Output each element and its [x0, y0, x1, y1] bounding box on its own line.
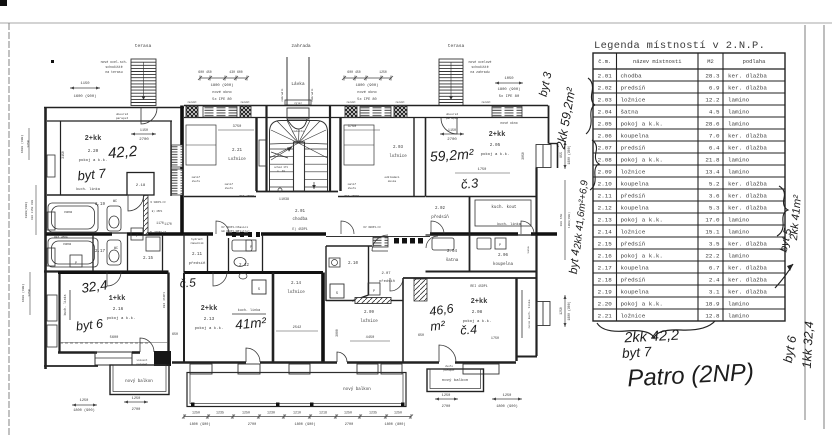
svg-text:2700: 2700 — [132, 408, 141, 412]
bath band south wall west — [44, 270, 169, 272]
svg-text:schod 171: schod 171 — [274, 165, 288, 169]
svg-text:předsíň: předsíň — [621, 240, 646, 247]
svg-text:lamino: lamino — [728, 228, 750, 235]
svg-text:koupelna: koupelna — [621, 204, 650, 211]
svg-text:předsíň: předsíň — [621, 276, 646, 283]
wall 2.03 east — [413, 118, 415, 197]
brace left of table upper — [586, 78, 595, 134]
svg-text:2.11: 2.11 — [192, 253, 203, 257]
stairwell east wall — [329, 106, 331, 193]
dim chain top mid-east — [342, 76, 393, 81]
north wall window xhatch 2a — [345, 106, 357, 118]
svg-text:1230: 1230 — [267, 411, 275, 415]
svg-text:byt 7: byt 7 — [77, 166, 107, 184]
svg-text:3.1: 3.1 — [709, 288, 720, 295]
stair to terrace west — [131, 59, 156, 106]
svg-text:22.2: 22.2 — [705, 252, 720, 259]
svg-text:2.12: 2.12 — [239, 264, 250, 268]
svg-text:malíř: malíř — [192, 175, 201, 179]
svg-text:2+kk: 2+kk — [201, 305, 218, 313]
svg-text:1250: 1250 — [132, 397, 141, 401]
dim east margin lower — [564, 295, 566, 327]
wall west apartment east thick — [180, 106, 184, 235]
svg-text:2700: 2700 — [139, 138, 149, 142]
svg-text:12.2: 12.2 — [705, 96, 720, 103]
svg-text:ker. dlažba: ker. dlažba — [728, 204, 767, 211]
svg-text:předsíň: předsíň — [379, 279, 395, 284]
svg-text:2.13: 2.13 — [204, 317, 215, 322]
dim chain big balcony — [182, 414, 413, 419]
stairwell entry vestibule — [287, 108, 309, 129]
dim west terrace stair — [70, 87, 100, 90]
svg-text:koupelna: koupelna — [493, 262, 514, 267]
svg-text:3750: 3750 — [233, 125, 242, 129]
svg-text:2.01: 2.01 — [598, 72, 613, 79]
svg-text:1800 (800): 1800 (800) — [384, 422, 405, 427]
svg-text:ubourat: ubourat — [116, 112, 129, 116]
svg-text:2700: 2700 — [248, 423, 256, 427]
svg-text:malíř: malíř — [225, 182, 234, 186]
svg-text:nové ocel.sch.: nové ocel.sch. — [101, 60, 128, 64]
svg-text:2.16: 2.16 — [598, 252, 613, 259]
svg-text:nový balkon: nový balkon — [125, 379, 153, 384]
svg-text:21.8: 21.8 — [705, 156, 720, 163]
dim west margin upper — [28, 128, 30, 160]
svg-text:2.18: 2.18 — [136, 184, 146, 188]
south wall room 2.16 — [58, 351, 97, 354]
svg-text:lamino: lamino — [728, 252, 750, 259]
svg-text:1250: 1250 — [80, 399, 89, 403]
svg-text:3050: 3050 — [521, 152, 525, 160]
svg-text:1800(900): 1800(900) — [24, 202, 28, 219]
svg-text:lamino: lamino — [728, 312, 750, 319]
stairwell spine wall — [294, 142, 305, 191]
svg-text:ker. dlažba: ker. dlažba — [728, 264, 767, 271]
upper bath row walls — [46, 232, 127, 234]
svg-text:ložnice: ložnice — [360, 319, 378, 324]
wall satna koupelna north — [426, 234, 538, 236]
svg-text:pokoj a k.k.: pokoj a k.k. — [621, 300, 663, 307]
svg-text:1250: 1250 — [26, 140, 30, 148]
svg-text:E) 45DP1: E) 45DP1 — [292, 227, 307, 231]
south sill boxes mid — [190, 364, 499, 374]
corridor door arcs — [216, 221, 534, 234]
svg-text:1250: 1250 — [379, 70, 387, 74]
svg-text:1250: 1250 — [242, 411, 250, 415]
fixtures 2.10 sink — [329, 258, 340, 267]
svg-text:5x IPE 80: 5x IPE 80 — [357, 98, 376, 102]
shower 2.14 — [252, 280, 266, 294]
svg-text:zazdít: zazdít — [187, 100, 197, 104]
svg-text:2.13: 2.13 — [598, 216, 613, 223]
svg-text:1250: 1250 — [503, 394, 512, 398]
svg-text:2.02: 2.02 — [598, 84, 613, 91]
south outer wall west — [44, 365, 98, 367]
hatched wall 2.07-2.08 — [414, 279, 427, 301]
svg-text:S: S — [258, 288, 260, 292]
north wall band inner — [184, 117, 548, 119]
svg-text:pokoj a k.k.: pokoj a k.k. — [621, 216, 663, 223]
svg-text:predsíň: predsíň — [621, 84, 646, 91]
svg-text:1250: 1250 — [559, 307, 563, 315]
svg-text:ložnice: ložnice — [287, 290, 305, 295]
svg-text:koupelna: koupelna — [621, 264, 650, 271]
black door posts corridor — [232, 232, 260, 237]
svg-text:2.15: 2.15 — [598, 240, 613, 247]
svg-text:2.14: 2.14 — [291, 282, 302, 286]
stairwell straight treads — [270, 149, 328, 187]
svg-text:M2: M2 — [707, 59, 713, 65]
svg-text:ker. dlažba: ker. dlažba — [728, 240, 767, 247]
dim west balcony b — [124, 401, 148, 403]
svg-text:zámečník: zámečník — [190, 241, 204, 245]
shaft between 2.21 and stairwell — [259, 140, 267, 166]
svg-text:ker. dlažba: ker. dlažba — [728, 144, 767, 151]
svg-text:2.21: 2.21 — [232, 149, 243, 153]
stairwell U outline — [270, 121, 328, 192]
svg-text:š. 30: š. 30 — [277, 169, 285, 173]
svg-text:lamino: lamino — [728, 168, 750, 175]
svg-text:12.8: 12.8 — [705, 312, 720, 319]
svg-text:koupelna: koupelna — [621, 180, 650, 187]
svg-text:3.5: 3.5 — [709, 240, 720, 247]
svg-text:15.1: 15.1 — [705, 228, 720, 235]
west wall inner lower — [58, 272, 60, 353]
svg-text:S: S — [336, 292, 338, 296]
svg-text:zazdít: zazdít — [346, 100, 356, 104]
svg-text:ker. dlažba: ker. dlažba — [728, 192, 767, 199]
svg-text:2+kk: 2+kk — [489, 131, 506, 139]
corridor lower edge east section — [326, 236, 430, 238]
svg-text:dveře: dveře — [348, 186, 357, 190]
svg-text:2700: 2700 — [345, 423, 353, 427]
svg-text:lamino: lamino — [728, 120, 750, 127]
svg-text:2.16: 2.16 — [113, 307, 124, 312]
svg-text:7.0: 7.0 — [709, 132, 720, 139]
svg-text:1250: 1250 — [27, 289, 31, 297]
svg-text:WC: WC — [113, 200, 117, 204]
stair entry door arc 2.05 — [441, 118, 457, 134]
svg-text:ložnice: ložnice — [389, 154, 407, 159]
svg-text:nové okno: nové okno — [500, 121, 517, 125]
handwriting arrow right — [775, 264, 793, 288]
svg-text:šatna: šatna — [621, 108, 639, 115]
P box 2.07 — [368, 283, 380, 295]
wall satna koupelna south — [426, 271, 538, 273]
svg-text:č.m.: č.m. — [598, 59, 611, 65]
corner mark top-left — [0, 0, 7, 6]
east window bay upper — [536, 145, 551, 168]
svg-text:parapet: parapet — [446, 117, 459, 120]
shower 2.15 — [146, 237, 160, 251]
svg-text:13.4: 13.4 — [705, 168, 720, 175]
stairwell west wall — [265, 106, 267, 193]
svg-text:1150: 1150 — [140, 129, 148, 133]
wall 2.03 west — [339, 118, 341, 192]
svg-text:pokoj a k.k.: pokoj a k.k. — [621, 156, 663, 163]
door arc satna — [426, 236, 438, 248]
svg-text:2.09: 2.09 — [598, 168, 613, 175]
svg-text:ložnice: ložnice — [621, 96, 646, 103]
svg-text:2.14: 2.14 — [598, 228, 613, 235]
svg-text:Ložnice: Ložnice — [228, 157, 246, 162]
right margin rule A — [804, 25, 806, 420]
svg-text:3000: 3000 — [335, 329, 339, 337]
svg-text:1050: 1050 — [504, 77, 514, 81]
svg-text:nové okno: nové okno — [212, 90, 231, 95]
svg-text:2.21: 2.21 — [598, 312, 613, 319]
wc small 2.14 zone — [239, 273, 247, 279]
door arc into 2.13 — [213, 272, 227, 286]
svg-text:2.06: 2.06 — [598, 132, 613, 139]
door arc 2.07 — [372, 235, 388, 251]
svg-text:1170: 1170 — [156, 221, 164, 225]
dim room 2.20 — [131, 133, 156, 136]
east outer wall upper — [548, 106, 550, 144]
svg-text:1+kk: 1+kk — [109, 295, 126, 303]
kitchen wall west apartment — [47, 194, 127, 196]
svg-text:1218: 1218 — [319, 411, 327, 415]
north wall window lintel 1 — [203, 107, 237, 118]
svg-text:2.01: 2.01 — [295, 210, 306, 214]
svg-text:2.08: 2.08 — [598, 156, 613, 163]
svg-text:zahrada: zahrada — [291, 43, 311, 49]
svg-text:41m²: 41m² — [235, 315, 267, 333]
wall 2.08 east — [515, 278, 517, 361]
east wall step — [549, 143, 558, 145]
svg-text:hasicí: hasicí — [238, 225, 248, 229]
svg-text:kuch. linka: kuch. linka — [63, 294, 67, 315]
svg-text:1250: 1250 — [344, 411, 352, 415]
svg-text:Lávka: Lávka — [291, 82, 305, 87]
dim chain top mid-west — [198, 76, 249, 81]
svg-text:650: 650 — [172, 333, 178, 337]
svg-text:2.20: 2.20 — [88, 149, 99, 154]
dim east margin upper — [564, 141, 566, 169]
svg-text:6.7: 6.7 — [709, 264, 720, 271]
svg-text:2.10: 2.10 — [348, 262, 359, 266]
svg-text:2.09: 2.09 — [364, 311, 375, 315]
hatched wall 2.19 east — [144, 196, 149, 235]
fixtures 2.10 shower — [330, 284, 344, 298]
north wall window lintel 3 — [492, 107, 522, 118]
wall 2.13-2.14 divider — [272, 273, 275, 363]
south main wall mid — [172, 361, 516, 364]
survey dot — [51, 60, 54, 63]
svg-text:č.3: č.3 — [460, 175, 479, 192]
lavka sill — [285, 100, 311, 105]
svg-text:P: P — [75, 262, 77, 266]
svg-text:na zahradu: na zahradu — [470, 70, 489, 74]
svg-text:5x IPE 80: 5x IPE 80 — [499, 95, 520, 99]
svg-text:1235: 1235 — [369, 411, 377, 415]
dashed line room 2.16 — [60, 342, 150, 344]
svg-text:předsíň: předsíň — [431, 215, 449, 220]
svg-text:1800 (900): 1800 (900) — [294, 422, 315, 427]
svg-text:2.08: 2.08 — [472, 310, 483, 315]
svg-text:dveře: dveře — [192, 179, 201, 183]
door 2.18 arc — [128, 196, 144, 212]
svg-text:2.17: 2.17 — [598, 264, 613, 271]
svg-text:Legenda místností v 2.N.P.: Legenda místností v 2.N.P. — [594, 40, 765, 52]
left margin rule — [8, 23, 10, 435]
svg-text:REI 45DP1: REI 45DP1 — [239, 195, 254, 198]
svg-text:2.07: 2.07 — [598, 144, 613, 151]
svg-text:ker. dlažba: ker. dlažba — [728, 132, 767, 139]
svg-text:pokoj a k.k.: pokoj a k.k. — [195, 326, 224, 331]
svg-text:chodba: chodba — [621, 72, 643, 79]
svg-text:m²: m² — [430, 318, 447, 334]
east outer wall lower — [535, 168, 537, 357]
svg-text:600 450: 600 450 — [198, 70, 211, 74]
svg-text:N 30DP3-C3: N 30DP3-C3 — [150, 201, 166, 204]
svg-text:6.9: 6.9 — [709, 84, 720, 91]
svg-text:vana: vana — [527, 246, 530, 253]
svg-text:430 600: 430 600 — [229, 70, 242, 74]
wall central south thick — [321, 273, 325, 363]
dim east balcony a — [435, 398, 458, 400]
svg-text:terasa: terasa — [448, 43, 465, 49]
svg-text:ker. dlažba: ker. dlažba — [728, 288, 767, 295]
south window box 2.16 — [95, 352, 132, 365]
svg-text:2.06: 2.06 — [498, 254, 509, 258]
east outer wall mid — [557, 144, 559, 169]
svg-text:vana: vana — [64, 211, 72, 215]
svg-text:pokoj a k.k.: pokoj a k.k. — [481, 152, 510, 157]
closet lines 2.21 — [186, 125, 216, 165]
svg-text:ker. dlažba: ker. dlažba — [728, 276, 767, 283]
svg-text:predsíň: predsíň — [621, 144, 646, 151]
svg-text:5.2: 5.2 — [709, 180, 720, 187]
svg-text:5.3: 5.3 — [709, 204, 720, 211]
svg-text:výlez: výlez — [294, 101, 302, 105]
svg-text:6.4: 6.4 — [709, 144, 720, 151]
svg-text:2.4: 2.4 — [709, 276, 720, 283]
svg-text:ker. dlažba: ker. dlažba — [728, 72, 767, 79]
dim room 2.05 door — [440, 133, 464, 136]
top margin rule — [0, 22, 832, 24]
svg-text:pokoj a k.k.: pokoj a k.k. — [79, 158, 108, 163]
svg-text:zazdít: zazdít — [481, 100, 491, 104]
svg-text:2.12: 2.12 — [598, 204, 613, 211]
svg-text:1235: 1235 — [216, 411, 224, 415]
svg-text:předsíň: předsíň — [621, 192, 646, 199]
bath 2.17 fixtures — [48, 238, 121, 267]
svg-text:nový balkon: nový balkon — [343, 387, 371, 392]
rooms 2.13 2.14 north wall — [184, 271, 323, 274]
svg-text:ubourat: ubourat — [446, 112, 459, 116]
right margin rule B — [823, 25, 825, 429]
kitchen counter 2.05 — [475, 200, 531, 226]
svg-text:P: P — [136, 235, 138, 239]
svg-text:5600: 5600 — [110, 336, 119, 340]
room 2.10 koupelna box — [326, 246, 369, 301]
svg-text:2kk 42,2: 2kk 42,2 — [623, 328, 680, 347]
svg-text:byt 7: byt 7 — [622, 344, 653, 361]
brace right of table — [777, 186, 788, 236]
wall 2.13 west — [183, 273, 185, 363]
svg-text:1600 (900): 1600 (900) — [74, 94, 97, 99]
svg-text:hydrant: hydrant — [191, 237, 203, 241]
svg-text:3750: 3750 — [348, 125, 357, 129]
svg-text:3.6: 3.6 — [709, 192, 720, 199]
dim west margin lower — [29, 272, 31, 315]
svg-text:2.04: 2.04 — [447, 250, 458, 254]
svg-text:2700: 2700 — [447, 138, 457, 142]
svg-text:zazdít: zazdít — [395, 100, 405, 104]
svg-text:2542: 2542 — [293, 326, 302, 330]
svg-text:odkládací: odkládací — [384, 175, 399, 179]
svg-text:nová kuch. linka: nová kuch. linka — [527, 299, 531, 328]
svg-text:400 1150 900: 400 1150 900 — [31, 200, 34, 220]
svg-text:P: P — [250, 245, 252, 249]
svg-text:4.5: 4.5 — [709, 108, 720, 115]
svg-text:ložnice: ložnice — [621, 168, 646, 175]
svg-text:REI 45DP1: REI 45DP1 — [344, 195, 359, 198]
balcony west box — [110, 365, 169, 395]
svg-text:1250: 1250 — [394, 411, 402, 415]
svg-text:2.03: 2.03 — [598, 96, 613, 103]
svg-text:na terasu: na terasu — [105, 70, 122, 74]
wall 2.02 kuchkout divider south — [426, 196, 538, 198]
north wall west apartment outer — [44, 107, 184, 109]
svg-text:2.15: 2.15 — [143, 257, 154, 261]
svg-text:17.0: 17.0 — [705, 216, 720, 223]
svg-text:schodiště: schodiště — [105, 65, 122, 69]
svg-text:855: 855 — [559, 152, 563, 158]
heating shaft box upper — [172, 145, 183, 167]
svg-text:vikount: vikount — [137, 358, 148, 362]
stairwell down arrow — [313, 182, 315, 189]
west outer wall — [44, 108, 47, 370]
west wall window boxes — [47, 155, 57, 347]
svg-text:2.03: 2.03 — [393, 146, 404, 150]
svg-text:1800 (900): 1800 (900) — [356, 83, 379, 88]
fixtures 2.06 — [432, 238, 454, 250]
svg-text:WC: WC — [114, 247, 118, 251]
dim west margin mid — [35, 185, 37, 235]
room 2.16 north wall — [58, 271, 169, 274]
wall 2.21 west is 182 already; wall 2.21 east — [255, 118, 257, 192]
wall kuch kout west — [469, 197, 471, 273]
bath band inner walls — [93, 234, 263, 272]
svg-text:koupelna: koupelna — [621, 132, 650, 139]
svg-text:podesta: podesta — [292, 129, 304, 133]
dim west balcony a — [72, 404, 97, 406]
stairwell section circle — [278, 188, 282, 192]
svg-text:předsíň: předsíň — [189, 261, 206, 266]
balcony east box — [427, 369, 484, 392]
svg-text:chodba: chodba — [292, 217, 308, 222]
stair to garden east — [439, 59, 463, 106]
svg-text:2.19: 2.19 — [598, 288, 613, 295]
svg-text:1800 (900): 1800 (900) — [498, 87, 521, 92]
svg-text:600 450: 600 450 — [347, 70, 360, 74]
balcony posts — [191, 403, 405, 407]
svg-text:1210: 1210 — [293, 411, 301, 415]
svg-text:kuch. linka: kuch. linka — [238, 308, 260, 313]
svg-text:300 650: 300 650 — [560, 214, 563, 227]
wall 2.16 east — [167, 273, 169, 354]
balcony door 2.09 — [337, 352, 347, 362]
svg-text:1800 (900): 1800 (900) — [211, 83, 234, 88]
svg-text:název místnosti: název místnosti — [633, 59, 682, 65]
east window bay lower — [537, 302, 550, 326]
svg-text:28.3: 28.3 — [705, 72, 720, 79]
svg-text:pokoj a k.k.: pokoj a k.k. — [621, 120, 663, 127]
svg-text:2+kk: 2+kk — [471, 298, 488, 306]
svg-text:2.04: 2.04 — [598, 108, 613, 115]
